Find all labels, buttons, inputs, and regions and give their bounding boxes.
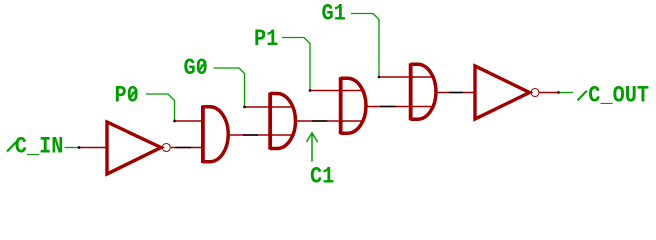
wire net G1 <box>351 14 379 77</box>
U1 output bubble <box>162 144 170 152</box>
inverter U2 <box>475 66 530 119</box>
node C_IN label <box>7 142 16 152</box>
gate G3 top input stub <box>246 106 295 108</box>
wire net G0 <box>214 68 245 106</box>
probe arrow C1 <box>311 134 313 162</box>
wire G2 to G3 <box>230 134 295 136</box>
wire net P1 <box>282 38 310 90</box>
svg-text:G1: G1 <box>322 1 346 27</box>
wire net C_OUT <box>560 92 573 94</box>
junction G1 <box>378 76 380 78</box>
AND gate G5 <box>409 63 413 120</box>
svg-text:C_IN: C_IN <box>15 134 64 160</box>
wire G3 to G4 <box>297 120 364 122</box>
wire net P0 <box>146 94 175 120</box>
junction C_OUT <box>557 91 559 93</box>
gate G5 top input stub <box>380 76 434 78</box>
AND gate G3 <box>268 93 272 150</box>
AND gate G4 <box>339 77 343 134</box>
gate G4 top input stub <box>311 90 364 92</box>
junction G0 <box>243 106 245 108</box>
svg-text:P0: P0 <box>115 83 139 109</box>
wire G4 to G5 <box>366 106 434 108</box>
AND gate G2 <box>201 106 205 164</box>
svg-text:C_OUT: C_OUT <box>588 83 649 109</box>
wire G5 to U2 <box>436 92 474 94</box>
svg-text:G0: G0 <box>184 55 208 81</box>
U2 output bubble <box>531 89 539 97</box>
junction C_IN <box>78 146 80 148</box>
gate G2 top input stub <box>176 120 203 122</box>
wire U1 to G2 <box>171 147 202 149</box>
svg-text:P1: P1 <box>254 26 278 52</box>
wire net C_IN <box>65 147 79 149</box>
svg-text:C1: C1 <box>310 164 334 189</box>
node C_OUT label <box>578 91 587 101</box>
inverter U1 <box>107 122 161 174</box>
U2 output stub <box>539 92 558 94</box>
junction P0 <box>173 120 175 122</box>
inverter U1 input stub <box>80 147 107 149</box>
junction P1 <box>309 89 311 91</box>
